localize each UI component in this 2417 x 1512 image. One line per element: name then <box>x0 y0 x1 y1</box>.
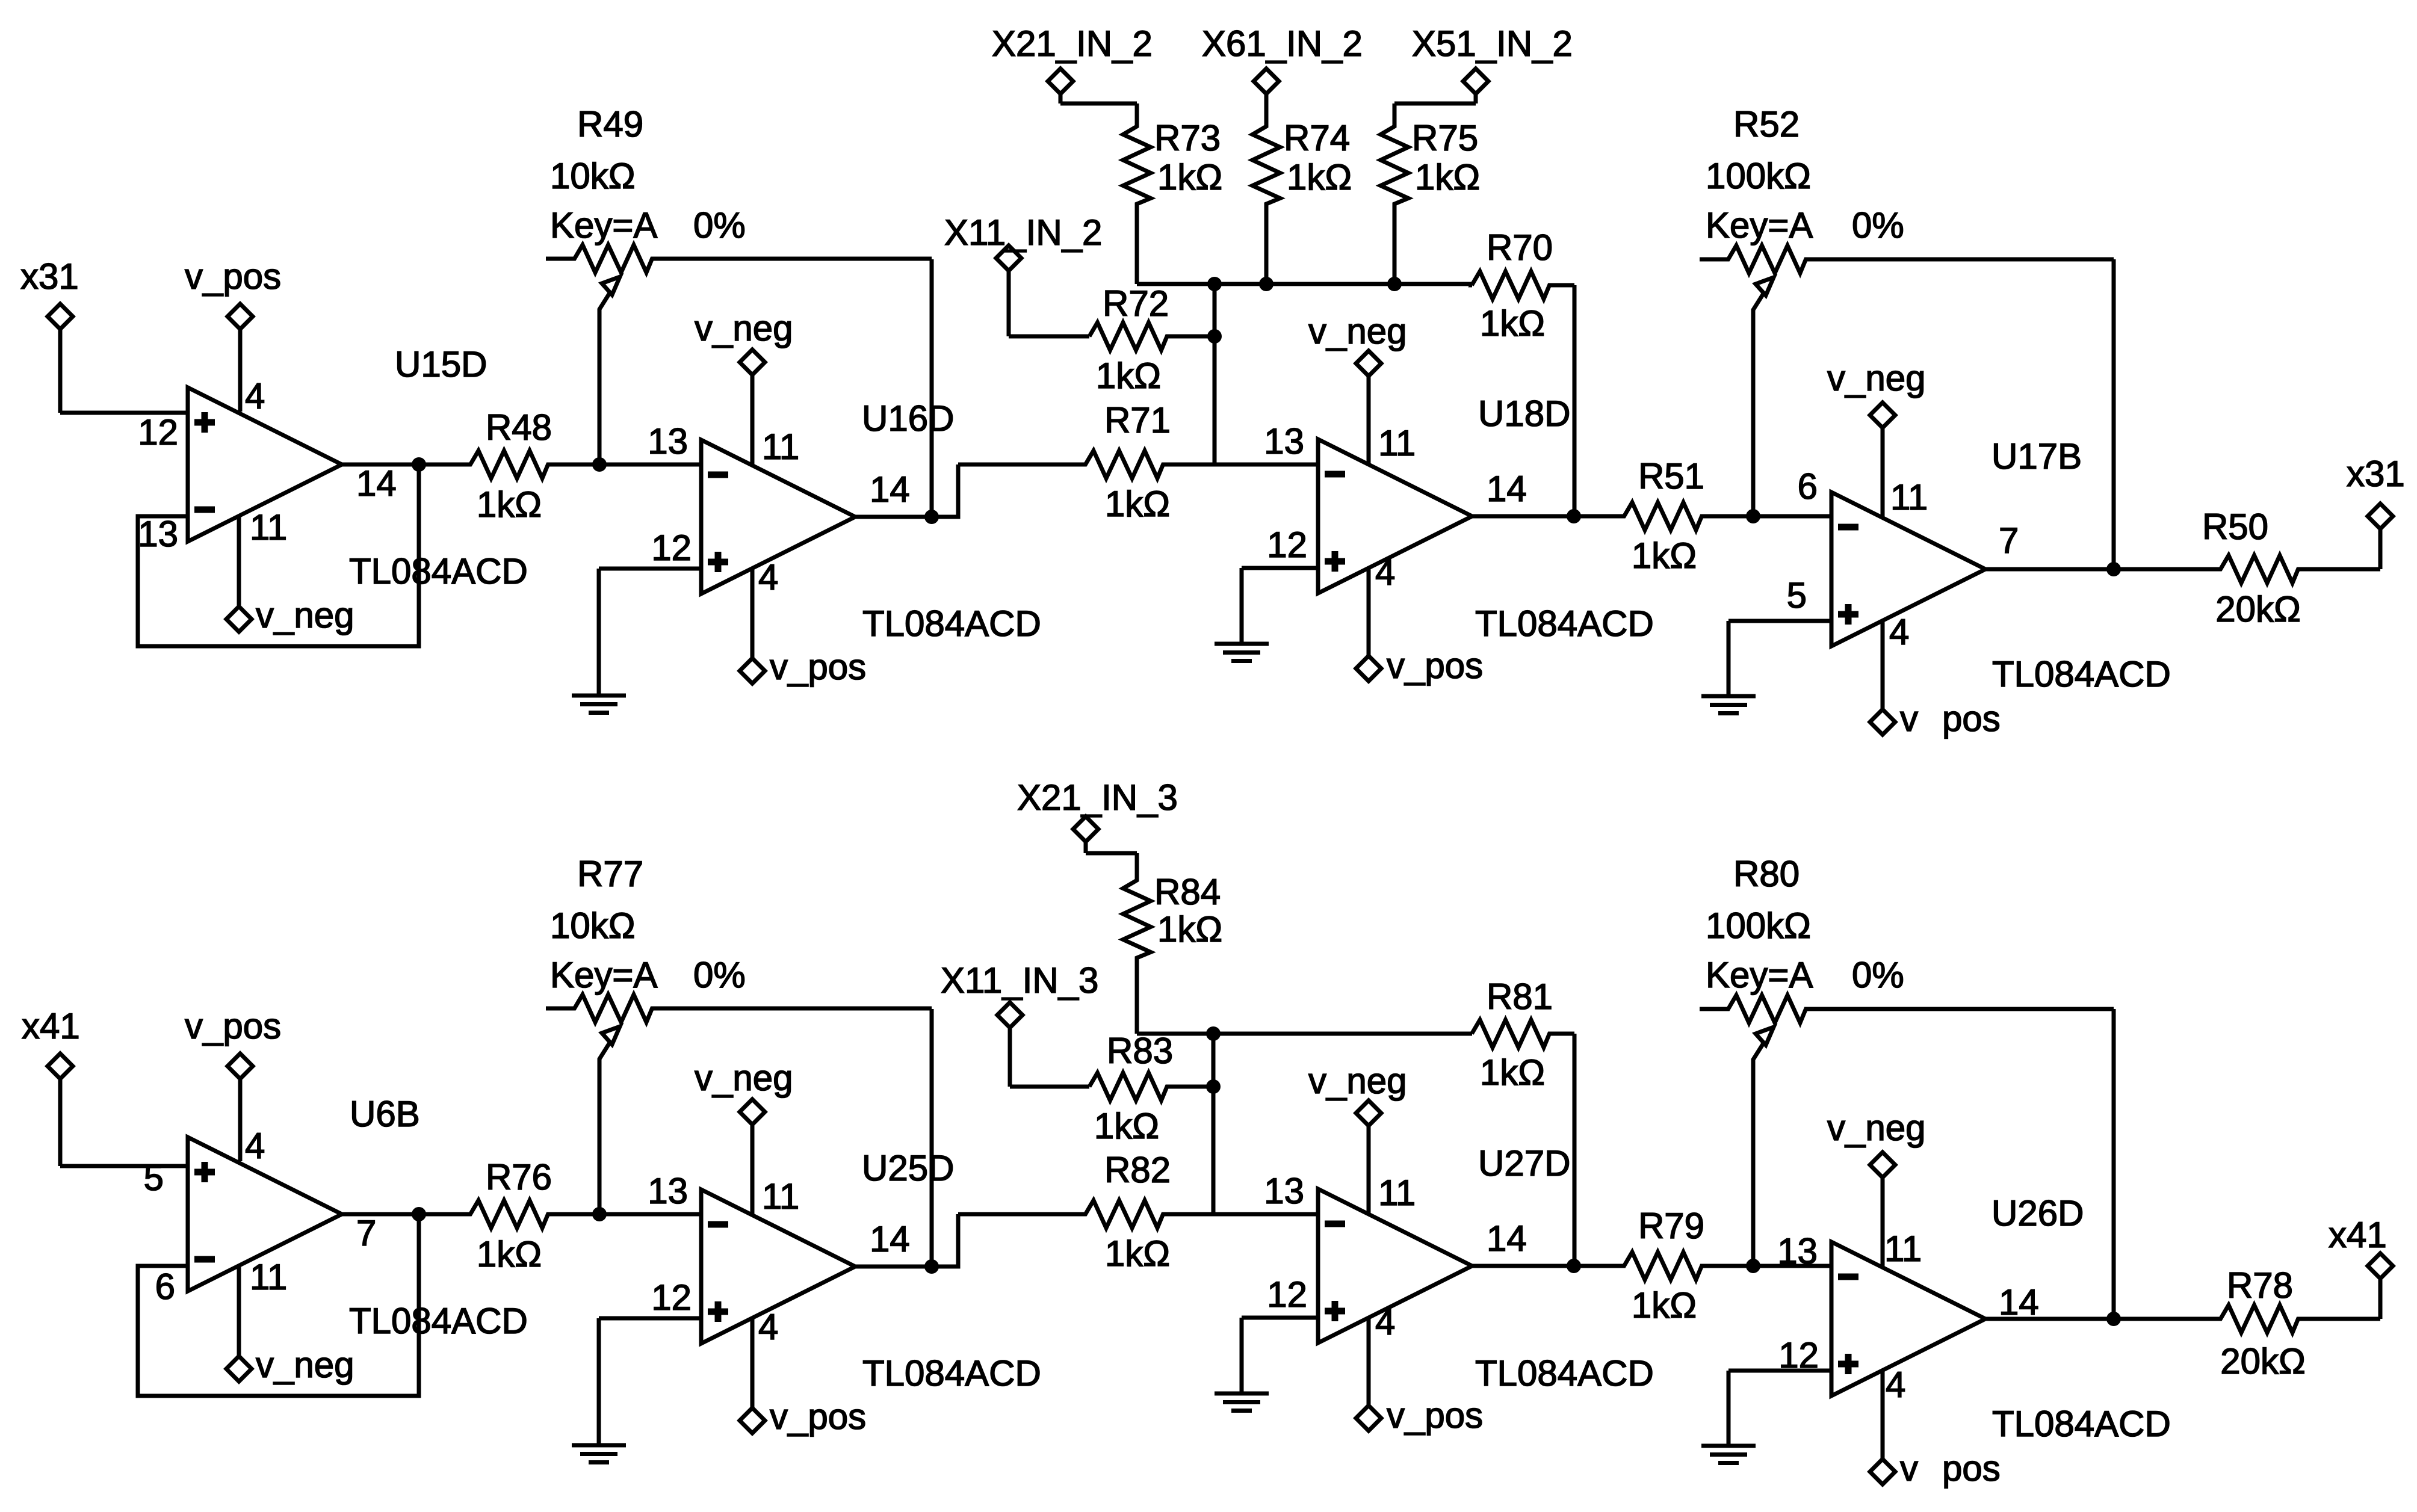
svg-text:R70: R70 <box>1487 227 1553 268</box>
svg-text:v_neg: v_neg <box>695 308 793 348</box>
svg-text:U15D: U15D <box>395 344 487 384</box>
svg-text:11: 11 <box>1890 477 1928 517</box>
svg-text:0%: 0% <box>693 205 746 245</box>
svg-text:0%: 0% <box>1852 955 1904 995</box>
svg-text:v: v <box>1900 1448 1918 1489</box>
svg-text:13: 13 <box>1264 1171 1304 1211</box>
svg-text:20kΩ: 20kΩ <box>2215 589 2301 629</box>
svg-text:0%: 0% <box>693 955 746 995</box>
svg-text:12: 12 <box>651 1277 692 1318</box>
svg-text:11: 11 <box>1378 423 1416 463</box>
svg-text:TL084ACD: TL084ACD <box>349 1301 528 1341</box>
svg-text:4: 4 <box>1889 612 1909 652</box>
svg-text:13: 13 <box>1264 421 1304 461</box>
svg-text:R81: R81 <box>1487 977 1553 1017</box>
svg-text:100kΩ: 100kΩ <box>1706 156 1811 196</box>
svg-text:1kΩ: 1kΩ <box>1287 157 1352 197</box>
svg-text:TL084ACD: TL084ACD <box>862 1353 1041 1393</box>
svg-text:U16D: U16D <box>862 398 954 439</box>
svg-text:R74: R74 <box>1284 118 1350 158</box>
svg-text:v_pos: v_pos <box>770 1396 866 1437</box>
svg-text:X61_IN_2: X61_IN_2 <box>1202 23 1363 64</box>
svg-text:x41: x41 <box>2329 1215 2387 1255</box>
svg-text:Key=A: Key=A <box>1706 205 1813 245</box>
svg-text:14: 14 <box>1487 469 1527 509</box>
svg-text:11: 11 <box>250 1257 287 1297</box>
svg-text:pos: pos <box>1942 699 2001 739</box>
svg-text:v_neg: v_neg <box>1827 1108 1925 1148</box>
svg-text:1kΩ: 1kΩ <box>1096 356 1161 396</box>
svg-text:TL084ACD: TL084ACD <box>1475 1353 1654 1393</box>
svg-text:7: 7 <box>356 1213 376 1253</box>
svg-text:Key=A: Key=A <box>1706 955 1813 995</box>
svg-text:1kΩ: 1kΩ <box>1094 1106 1159 1146</box>
svg-text:12: 12 <box>1778 1335 1819 1375</box>
svg-text:11: 11 <box>762 1176 799 1217</box>
svg-text:R84: R84 <box>1154 872 1221 912</box>
svg-text:14: 14 <box>1999 1282 2039 1322</box>
svg-text:13: 13 <box>1777 1231 1818 1271</box>
svg-text:v_pos: v_pos <box>185 256 281 297</box>
svg-text:U25D: U25D <box>862 1148 954 1188</box>
svg-text:TL084ACD: TL084ACD <box>1992 1404 2171 1444</box>
svg-text:5: 5 <box>1787 575 1807 616</box>
svg-text:R83: R83 <box>1107 1031 1173 1071</box>
svg-text:v_neg: v_neg <box>256 1345 354 1385</box>
svg-text:R80: R80 <box>1733 854 1800 894</box>
svg-text:4: 4 <box>1375 1302 1395 1342</box>
svg-text:X21_IN_2: X21_IN_2 <box>992 23 1153 64</box>
svg-text:1kΩ: 1kΩ <box>1632 1285 1697 1325</box>
svg-text:v_neg: v_neg <box>1308 1061 1407 1101</box>
svg-text:14: 14 <box>1487 1218 1527 1259</box>
svg-text:4: 4 <box>758 1307 778 1347</box>
svg-text:10kΩ: 10kΩ <box>550 906 636 946</box>
svg-text:1kΩ: 1kΩ <box>1415 157 1480 197</box>
svg-text:v_pos: v_pos <box>770 647 866 687</box>
svg-text:R73: R73 <box>1154 118 1221 158</box>
svg-text:U26D: U26D <box>1991 1193 2084 1233</box>
svg-text:R52: R52 <box>1733 104 1800 144</box>
svg-text:x41: x41 <box>22 1006 80 1046</box>
svg-text:13: 13 <box>648 421 688 461</box>
svg-text:R48: R48 <box>486 407 552 448</box>
svg-text:13: 13 <box>648 1171 688 1211</box>
svg-text:4: 4 <box>1886 1365 1905 1405</box>
svg-text:U27D: U27D <box>1478 1143 1570 1183</box>
svg-text:R72: R72 <box>1103 283 1169 324</box>
svg-text:v_pos: v_pos <box>1387 646 1483 686</box>
svg-text:Key=A: Key=A <box>550 955 657 995</box>
svg-text:TL084ACD: TL084ACD <box>1475 603 1654 644</box>
svg-text:4: 4 <box>245 1126 265 1166</box>
svg-text:v_pos: v_pos <box>1387 1395 1483 1436</box>
svg-text:11: 11 <box>1378 1173 1416 1213</box>
svg-text:4: 4 <box>758 557 778 597</box>
svg-text:pos: pos <box>1942 1448 2001 1489</box>
svg-text:14: 14 <box>870 1219 910 1259</box>
svg-text:v_neg: v_neg <box>695 1058 793 1098</box>
svg-text:14: 14 <box>356 463 397 504</box>
svg-text:R76: R76 <box>486 1157 552 1197</box>
svg-text:11: 11 <box>250 507 287 548</box>
svg-text:Key=A: Key=A <box>550 205 657 245</box>
svg-text:R49: R49 <box>577 104 643 144</box>
svg-text:1kΩ: 1kΩ <box>477 1234 542 1274</box>
svg-text:v_neg: v_neg <box>1827 358 1925 398</box>
svg-text:X21_IN_3: X21_IN_3 <box>1017 777 1178 818</box>
svg-text:TL084ACD: TL084ACD <box>349 551 528 591</box>
svg-text:R75: R75 <box>1412 118 1478 158</box>
svg-text:20kΩ: 20kΩ <box>2220 1341 2306 1381</box>
svg-text:X11_IN_3: X11_IN_3 <box>941 960 1098 1001</box>
svg-text:12: 12 <box>1267 525 1307 565</box>
svg-text:13: 13 <box>138 514 178 554</box>
svg-text:1kΩ: 1kΩ <box>1480 1052 1545 1093</box>
svg-text:6: 6 <box>1798 466 1818 507</box>
svg-text:R51: R51 <box>1638 456 1704 496</box>
svg-text:v: v <box>1900 699 1918 739</box>
svg-text:6: 6 <box>155 1267 175 1307</box>
svg-text:TL084ACD: TL084ACD <box>1992 654 2171 694</box>
svg-text:U17B: U17B <box>1991 436 2082 477</box>
svg-text:v_pos: v_pos <box>185 1006 281 1046</box>
svg-text:R50: R50 <box>2202 507 2268 547</box>
svg-text:R82: R82 <box>1104 1150 1171 1190</box>
svg-text:100kΩ: 100kΩ <box>1706 906 1811 946</box>
svg-text:X11_IN_2: X11_IN_2 <box>944 212 1102 253</box>
svg-text:12: 12 <box>1267 1274 1307 1315</box>
svg-text:v_neg: v_neg <box>1308 311 1407 351</box>
svg-text:12: 12 <box>651 528 692 568</box>
svg-text:x31: x31 <box>2347 454 2405 494</box>
svg-text:x31: x31 <box>20 256 79 297</box>
svg-text:X51_IN_2: X51_IN_2 <box>1412 23 1573 64</box>
svg-text:1kΩ: 1kΩ <box>1105 484 1170 524</box>
svg-text:R71: R71 <box>1104 400 1171 440</box>
svg-text:10kΩ: 10kΩ <box>550 156 636 196</box>
svg-text:7: 7 <box>1999 520 2019 561</box>
svg-text:R78: R78 <box>2227 1265 2293 1306</box>
svg-text:R79: R79 <box>1638 1206 1704 1246</box>
svg-text:1kΩ: 1kΩ <box>1157 157 1222 197</box>
svg-text:R77: R77 <box>577 854 643 894</box>
svg-text:14: 14 <box>870 469 910 510</box>
svg-text:11: 11 <box>1884 1229 1922 1269</box>
svg-text:v_neg: v_neg <box>256 595 354 635</box>
svg-text:4: 4 <box>245 376 265 416</box>
svg-text:11: 11 <box>762 427 799 467</box>
svg-text:TL084ACD: TL084ACD <box>862 603 1041 644</box>
svg-text:5: 5 <box>144 1158 164 1198</box>
svg-text:1kΩ: 1kΩ <box>477 484 542 525</box>
svg-text:U18D: U18D <box>1478 393 1570 434</box>
svg-text:12: 12 <box>138 412 178 452</box>
svg-text:1kΩ: 1kΩ <box>1157 909 1222 949</box>
svg-text:0%: 0% <box>1852 205 1904 245</box>
svg-text:4: 4 <box>1375 552 1395 593</box>
svg-text:1kΩ: 1kΩ <box>1105 1233 1170 1274</box>
svg-text:1kΩ: 1kΩ <box>1480 303 1545 344</box>
svg-text:1kΩ: 1kΩ <box>1632 535 1697 576</box>
svg-text:U6B: U6B <box>350 1094 420 1134</box>
